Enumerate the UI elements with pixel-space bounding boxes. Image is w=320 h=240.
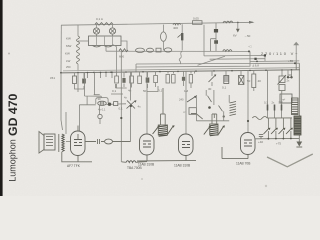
- junction square a: [264, 54, 266, 56]
- r x131.5: [131, 72, 133, 76]
- coil bumps L2 on top bus: [173, 23, 181, 25]
- resistor bar x182 with arrow: [181, 24, 183, 50]
- resistor x253.5: [253, 70, 255, 74]
- svg-text:m²: m²: [282, 99, 285, 102]
- mains arrow up: [293, 42, 299, 46]
- wire riser x204: [203, 25, 205, 56]
- antenna coil L1: [77, 36, 80, 64]
- junction square b: [254, 58, 256, 60]
- svg-text:AF7 TFK: AF7 TFK: [67, 164, 81, 168]
- gang trimmer arcs: [93, 46, 113, 48]
- choke coil hatched column: [292, 98, 299, 115]
- rectifier diode arrow down: [296, 142, 302, 147]
- r x139.5: [139, 72, 141, 76]
- wire y120.8: [196, 120, 229, 122]
- bus upper rail: [63, 68, 299, 71]
- svg-text:0,1: 0,1: [264, 101, 268, 105]
- output transformer winding: [62, 134, 64, 152]
- switch slashes mid: [208, 96, 223, 112]
- wire x79.4 to tube1: [78, 105, 80, 131]
- fuse capsule: [98, 101, 107, 105]
- tube V3 envelope: [179, 134, 194, 156]
- hatched coil mid: [230, 102, 237, 116]
- top bus wire: [61, 22, 253, 25]
- bus lower rail main: [60, 70, 300, 73]
- dial lamp La2: [109, 28, 115, 34]
- node dot x291.5: [291, 70, 293, 77]
- svg-text:30: 30: [208, 87, 212, 91]
- node big dot: [108, 103, 111, 106]
- svg-text:0,1: 0,1: [119, 107, 124, 111]
- svg-text:0,1: 0,1: [158, 89, 163, 93]
- box w label: [189, 108, 196, 115]
- wire mains vertical: [295, 45, 297, 61]
- wire line LA with filter ovals: [106, 50, 250, 52]
- node dot x288: [287, 70, 289, 77]
- speck: [8, 53, 10, 55]
- svg-text:TBA 700B: TBA 700B: [127, 166, 142, 170]
- wiggle wire x180: [179, 51, 182, 64]
- svg-text:220/110 V~: 220/110 V~: [261, 51, 299, 56]
- mixer wires left: [61, 73, 63, 130]
- r pair x190-195: [191, 71, 195, 73]
- IFT1 hatched block: [158, 125, 167, 135]
- dial lamp La1: [93, 28, 99, 34]
- coil bumps L3 on top bus: [223, 21, 233, 23]
- svg-text:≠61: ≠61: [50, 76, 55, 80]
- IFT2 risers: [212, 114, 217, 124]
- stacked boxes x282: [281, 70, 283, 76]
- marks right x288: [289, 75, 292, 78]
- heater wavy line: [252, 117, 292, 120]
- wire x87 down: [86, 96, 88, 105]
- junction dot: [256, 61, 258, 63]
- wire mid line L5: [136, 62, 250, 68]
- svg-text:4n: 4n: [128, 89, 132, 93]
- small box: [114, 102, 118, 106]
- svg-text:KW: KW: [65, 52, 70, 56]
- IFT2 arrow right: [218, 126, 223, 134]
- svg-text:50: 50: [247, 79, 251, 83]
- wire mid line L2b: [210, 58, 265, 61]
- capsule vertical x163: [162, 25, 164, 32]
- coil loops on LA: [223, 50, 232, 52]
- filter capsule 2: [147, 48, 154, 52]
- wire under V4: [222, 147, 248, 159]
- c x147.5 dark: [147, 72, 149, 77]
- resistor R1 0,1A zigzag above lamps: [95, 23, 113, 26]
- trimmer arrow x212: [211, 71, 213, 76]
- svg-text:GD 470: GD 470: [6, 93, 20, 136]
- tube V2/V3 bottom line: [137, 159, 196, 162]
- capsule right of V1: [105, 139, 113, 144]
- svg-text:+75: +75: [276, 142, 281, 146]
- wire x299 vertical: [298, 63, 300, 145]
- wire horizontal tube4 right: [256, 137, 300, 139]
- wire corner above IFT2: [191, 114, 203, 120]
- svg-text:11AB 310B: 11AB 310B: [138, 163, 154, 167]
- wire x122.8 long: [120, 51, 122, 161]
- bus junction dots: [60, 69, 292, 74]
- svg-text:4x: 4x: [138, 105, 142, 109]
- speaker cone: [39, 132, 44, 154]
- c x183.5 dark small: [183, 71, 185, 76]
- svg-text:400: 400: [173, 26, 178, 30]
- choke coil 2 dark: [294, 116, 301, 135]
- r x116.5: [116, 72, 118, 76]
- wire riser x136: [135, 64, 137, 72]
- left black binding strip: [0, 0, 3, 196]
- wire horizontal y104.8: [79, 104, 126, 105]
- short stubs left: [88, 72, 113, 95]
- wire x130.5 down: [130, 72, 132, 142]
- trimmer X: [127, 101, 136, 109]
- IFT2 arrow left: [204, 127, 210, 135]
- box lower right: [280, 94, 292, 103]
- speaker driver box: [44, 134, 55, 150]
- wire diagonal L2: [198, 56, 226, 65]
- svg-text:MW: MW: [66, 44, 71, 48]
- filter capsule 1: [136, 48, 145, 52]
- IFT1 risers: [161, 88, 166, 125]
- wire gang to coil: [78, 40, 89, 42]
- faint speck bottom: [265, 185, 267, 187]
- resistor R600 zigzag on LA: [119, 49, 128, 52]
- cap right of V1: [85, 139, 104, 144]
- coil bumps bottom: [126, 161, 136, 163]
- arrow right end of top bus: [249, 21, 255, 24]
- wire corner x84.5: [85, 73, 102, 98]
- wire left vertical: [60, 25, 62, 73]
- wire gang right: [121, 41, 127, 51]
- wire lamps to gang box: [97, 24, 113, 37]
- c x124 dark: [123, 72, 125, 77]
- svg-text:Lumophon: Lumophon: [7, 139, 17, 182]
- junction node + drop arrow at x238: [237, 22, 239, 24]
- wire diag to line: [106, 45, 116, 72]
- tube V1 envelope: [71, 131, 86, 156]
- tube V1 bottom line: [62, 152, 92, 162]
- svg-text:LW: LW: [66, 59, 70, 63]
- X box x241: [240, 71, 242, 76]
- labels row: [112, 86, 227, 94]
- tube V2 envelope: [140, 134, 155, 155]
- svg-text:+55: +55: [288, 59, 293, 63]
- svg-text:0,05: 0,05: [193, 17, 199, 21]
- node dot right L4: [294, 62, 296, 64]
- svg-text:11AB 70B: 11AB 70B: [236, 162, 250, 166]
- wire loop around fuse: [96, 98, 108, 104]
- resistor box on top bus: [193, 21, 203, 25]
- hatched coil x226: [225, 71, 227, 76]
- wire x296 to bus: [295, 61, 297, 70]
- svg-text:KW: KW: [66, 37, 71, 41]
- wire x99 down w/ circle: [99, 106, 101, 115]
- wire verticals to tubes: [146, 72, 148, 135]
- cap + right of tube4: [259, 135, 263, 137]
- svg-text:0,1: 0,1: [112, 89, 117, 93]
- electrolytic dark blob x84: [83, 73, 85, 79]
- coil tap labels: [65, 37, 71, 64]
- svg-text:50: 50: [143, 89, 147, 93]
- svg-text:−□: −□: [248, 45, 252, 49]
- small resistors row right: [268, 105, 282, 111]
- big checkmark: [267, 154, 313, 167]
- svg-text:+40: +40: [258, 140, 263, 144]
- jog wires tier2: [94, 84, 158, 95]
- wire mid line L4: [136, 62, 299, 65]
- svg-text:240: 240: [179, 98, 184, 102]
- svg-text:30: 30: [98, 97, 101, 101]
- r x155.5: [155, 72, 157, 75]
- svg-text:0,1 A: 0,1 A: [96, 17, 103, 21]
- wire mid line L3: [250, 60, 299, 63]
- small box on LA: [156, 48, 161, 52]
- svg-text:250: 250: [66, 65, 71, 69]
- svg-text:0,1: 0,1: [222, 86, 227, 90]
- tube V4 envelope: [241, 133, 256, 155]
- svg-text:∡6,8: ∡6,8: [252, 64, 259, 68]
- wire mid line L2a: [204, 55, 265, 61]
- resistor cluster x74: [74, 73, 76, 76]
- trimmer verticals right: [268, 118, 291, 128]
- capacitor C1 drop at x216: [215, 23, 217, 51]
- pair x167-175: [168, 71, 174, 73]
- svg-text:500: 500: [279, 101, 284, 105]
- svg-text:40: 40: [258, 79, 262, 83]
- trimmer arrows row right: [264, 128, 292, 134]
- IFT1 arrow right: [168, 126, 173, 134]
- wire antenna drop: [77, 25, 79, 36]
- svg-text:11AB 310B: 11AB 310B: [174, 164, 190, 168]
- IFT1 arrow left: [153, 126, 159, 134]
- trimmer arrow mid: [187, 97, 196, 103]
- svg-text:6V: 6V: [233, 34, 237, 38]
- IFT2 hatched block: [210, 124, 218, 135]
- svg-text:→50: →50: [244, 34, 251, 38]
- filter capsule 3: [164, 48, 172, 52]
- tuning gang box: [89, 36, 122, 46]
